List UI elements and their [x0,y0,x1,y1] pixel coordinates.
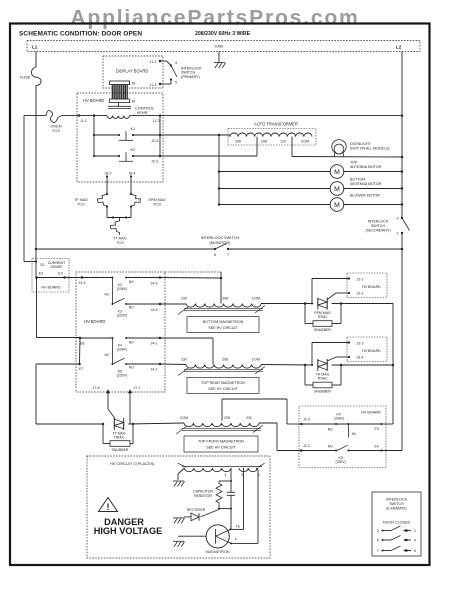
svg-text:TCO: TCO [77,203,85,207]
svg-text:J1-1: J1-1 [80,119,87,123]
svg-text:HV BOARD: HV BOARD [41,286,61,290]
wire K1 to J2-4 [133,134,160,136]
interlock switch secondary S2 [401,217,403,219]
snubber R2 network [304,365,306,385]
svg-text:HV BOARD: HV BOARD [362,285,381,289]
svg-text:J1-3: J1-3 [150,83,157,87]
svg-text:J3-4: J3-4 [357,356,364,360]
filament winding [239,468,258,472]
svg-text:208/230V 60Hz 3 WIRE: 208/230V 60Hz 3 WIRE [195,31,251,37]
top antenna motor M1 [330,165,344,179]
svg-text:E8: E8 [80,342,84,346]
HV board box (upper) [77,93,163,182]
triac Q3 (TT MAG) [113,418,115,430]
svg-text:HIGH VOLTAGE: HIGH VOLTAGE [94,526,163,536]
svg-text:J2-1: J2-1 [303,444,310,448]
svg-text:NO: NO [129,280,134,284]
label box BOTTOM MAGNETRON [187,317,259,333]
svg-text:J6: J6 [132,81,136,85]
svg-text:230: 230 [246,416,252,420]
svg-text:2: 2 [397,232,399,236]
svg-text:6: 6 [214,253,216,257]
svg-text:SNUBBER: SNUBBER [112,448,129,452]
svg-text:TRIAC: TRIAC [317,315,328,319]
resistor R (HV) [216,481,222,508]
svg-text:BOTTOM: BOTTOM [350,178,365,182]
wire J7-6 drop [107,392,109,409]
wire monitor row right [228,248,402,250]
svg-text:6: 6 [414,549,416,553]
wire L2 rail mid [401,116,403,218]
wire filament pin6 drop [256,468,258,470]
wire J2-2 to triac1 anode [312,278,349,280]
wire J1-3 to interlock [160,83,171,85]
wire L2 rail lower [401,249,403,451]
ground G2 [173,517,184,519]
svg-text:L2: L2 [396,45,402,50]
svg-text:BOTTOM MAGNETRON: BOTTOM MAGNETRON [203,320,244,324]
svg-text:J7-7: J7-7 [134,386,141,390]
svg-text:(MONITOR): (MONITOR) [210,240,232,245]
wire E2-E3-J4-4 row [37,277,86,279]
svg-text:COM: COM [301,140,309,144]
svg-text:SENSE: SENSE [50,265,63,269]
svg-text:INTERLOCK: INTERLOCK [386,498,408,502]
svg-text:MAGNETRON: MAGNETRON [206,550,230,554]
SPIN MAG TCO thermal cutout [130,195,141,207]
svg-text:AppliancePartsPros.com: AppliancePartsPros.com [70,7,359,30]
svg-text:DISPLAY BOARD: DISPLAY BOARD [116,69,149,74]
wire magnetron cathode to ground [178,535,206,537]
svg-text:HV BOARD: HV BOARD [362,349,381,353]
wire K2 row to 208 tap [160,155,257,157]
svg-text:3: 3 [241,473,243,477]
relay contact K2 [118,155,120,157]
svg-text:208: 208 [222,358,228,362]
svg-text:J4-1: J4-1 [151,342,158,346]
svg-text:SWITCH: SWITCH [389,502,404,506]
svg-text:J1-2: J1-2 [153,119,160,123]
HV board box J2 (triac1 drive) [347,273,387,298]
wire link down to J2-3 row [286,399,288,424]
wire J8-4 drop [130,177,132,195]
TF MAG TCO thermal cutout [98,195,109,207]
wire triac3 to xfmr3 COM [128,423,184,424]
blower motor M3 [330,198,344,212]
wire bottom antenna motor M2 row [219,188,330,190]
wire node top [219,480,231,482]
svg-text:J2-3: J2-3 [303,417,310,421]
svg-text:RECTIFIER: RECTIFIER [187,508,206,512]
svg-text:(NOT ON ALL MODELS): (NOT ON ALL MODELS) [350,147,390,151]
svg-text:208: 208 [222,297,228,301]
wire E4 to L2 rail [382,450,403,452]
triac Q2 (TR MAG) [317,359,319,371]
display transformer T1 core (hatched) [112,85,128,99]
svg-text:TCO: TCO [116,241,124,245]
TT MAG TCO thermal cutout [119,218,121,222]
wire J7-7 drop [129,392,131,424]
relay K2/K3 selector (bottom magnetron) [82,277,112,279]
wire L2 rail to monitor row [401,233,403,249]
svg-text:SWITCH: SWITCH [371,224,386,228]
wire ovenlight row [292,156,402,159]
HV circuit box [87,456,270,558]
wire K2 row left [94,155,119,157]
svg-text:CAPACITOR: CAPACITOR [193,490,214,494]
oven TCO thermal cutout [46,111,64,123]
svg-text:E7: E7 [79,367,83,371]
wire control coil to J1-2 node [130,115,161,117]
svg-text:TF MAG: TF MAG [74,198,88,202]
wire blower motor M3 row [219,204,330,206]
wire COM tap drop [291,137,293,157]
svg-text:E2: E2 [39,271,43,275]
rectifier D1 [184,516,191,518]
wire 230 riser to J2-1 row [276,423,278,451]
HV board box (middle) [76,272,165,392]
wire triac2 to right bus [332,364,393,366]
wire K1 row to auto transformer [160,134,230,136]
snubber R3 network [102,424,104,444]
svg-text:J2-1: J2-1 [357,292,364,296]
svg-text:230: 230 [181,358,187,362]
svg-text:F: F [235,538,237,542]
svg-text:ANTENNA MOTOR: ANTENNA MOTOR [350,165,382,169]
ground G3 [173,540,184,542]
wire K1 row left [94,134,119,136]
pin J2-2 [348,277,350,279]
wire GND drop [218,52,220,63]
pin J3-4 [348,356,350,358]
svg-text:J8-4: J8-4 [129,172,136,176]
svg-text:J4-4: J4-4 [79,281,86,285]
display transformer T1 top plate [110,81,130,85]
wire J4-5 row to 208 riser [160,277,221,280]
svg-text:J8-2: J8-2 [105,172,112,176]
wire top antenna motor M1 row [219,171,330,173]
wire K-row feeder vertical [93,116,95,157]
svg-text:HV BOARD: HV BOARD [83,98,104,103]
wire L2 rail upper [401,52,403,116]
transformer T5 top rear magnetron [186,365,261,369]
svg-text:J2-3: J2-3 [151,160,158,164]
svg-text:SCHEMATIC CONDITION: DOOR OPEN: SCHEMATIC CONDITION: DOOR OPEN [19,31,142,38]
svg-text:120: 120 [280,140,286,144]
magnetron V1 [206,525,229,548]
wire TCO join left [106,207,108,218]
wire TCO join right [130,207,132,218]
svg-text:NC: NC [352,432,357,436]
interlock switch primary S1 [170,64,172,66]
svg-text:(208V): (208V) [117,347,127,351]
HV secondary winding [184,468,231,472]
svg-text:INTERLOCK: INTERLOCK [368,220,389,224]
display board box [103,56,163,88]
wire J4-1 row to 208 riser xfmr2 [160,337,213,339]
svg-text:COM: COM [180,416,188,420]
svg-text:HV BOARD: HV BOARD [84,319,105,324]
svg-text:J7-6: J7-6 [93,386,100,390]
wire xfmr3 230 stub [259,422,277,424]
fuse F1 [31,67,41,86]
svg-text:K2: K2 [131,148,136,152]
svg-text:M: M [334,202,340,209]
svg-text:ANTENNA MOTOR: ANTENNA MOTOR [350,182,382,186]
svg-text:TRIAC: TRIAC [114,436,125,440]
svg-text:RESISTOR: RESISTOR [194,494,212,498]
auto transformer T3 winding [229,135,231,137]
wire K2 to J2-3 [133,155,160,157]
svg-text:SNUBBER: SNUBBER [314,390,331,394]
svg-text:NO: NO [129,366,134,370]
interlock switch schematic box [372,492,421,556]
svg-text:TOP REAR MAGNETRON: TOP REAR MAGNETRON [201,381,245,385]
svg-text:E3: E3 [58,271,62,275]
transformer T4 bottom magnetron [186,304,261,308]
svg-text:SEE HV CIRCUIT: SEE HV CIRCUIT [206,446,236,450]
svg-text:SEE HV CIRCUIT: SEE HV CIRCUIT [208,387,238,391]
svg-text:(230V): (230V) [336,460,346,464]
wire J2-1 row [277,450,301,452]
svg-text:SPIN MAG: SPIN MAG [148,198,166,202]
display transformer T1 bottom plate [110,99,130,103]
wire L1 rail lower [35,86,37,250]
svg-text:SCHEMATIC: SCHEMATIC [386,507,408,511]
svg-text:DOOR CLOSED: DOOR CLOSED [383,521,411,525]
HV secondary tick left [178,463,187,467]
wire node bottom [219,508,231,510]
svg-text:OVENLIGHT: OVENLIGHT [350,142,372,146]
wire control row right [64,114,107,116]
svg-text:HV BOARD: HV BOARD [361,411,381,415]
svg-text:NC: NC [105,293,110,297]
capacitor C (HV) [230,481,232,492]
svg-text:TCO: TCO [153,203,161,207]
svg-text:5: 5 [377,538,379,542]
svg-text:SNUBBER: SNUBBER [314,328,331,332]
HV transformer secondary core [182,466,262,468]
svg-text:FUSE: FUSE [20,75,31,80]
svg-text:J6: J6 [132,99,136,103]
svg-text:230: 230 [181,297,187,301]
wire pin4 node [230,468,232,481]
svg-text:2: 2 [377,529,379,533]
wire J1-1 to interlock [160,60,167,62]
svg-text:7: 7 [377,549,379,553]
wire L1 rail upper [35,52,37,68]
wire left rail lower segment [35,364,37,424]
control transformer T2 coil [107,116,129,119]
svg-text:208: 208 [235,140,241,144]
svg-text:!: ! [107,502,110,512]
svg-text:3: 3 [397,217,399,221]
interlock switch monitor S3 [214,248,216,250]
svg-text:4: 4 [225,473,227,477]
oven light LP1 [332,140,346,154]
warning triangle [99,498,118,512]
wire J3-3 to triac2 anode [312,342,349,344]
HV secondary tick right [258,463,265,467]
triac Q1 (RFM MAG) [317,298,319,310]
current sense box [32,259,69,293]
svg-text:HV CIRCUIT (3 PLACES): HV CIRCUIT (3 PLACES) [110,461,155,466]
pin J2-1 [348,292,350,294]
svg-text:TCO: TCO [52,128,60,133]
svg-text:FIL: FIL [236,525,241,529]
svg-text:M: M [334,169,340,176]
label box TOP FRONT MAGNETRON [184,436,258,452]
wire J2-3 row [287,423,301,425]
relay K4 row [301,423,348,425]
svg-text:TRIAC: TRIAC [317,377,328,381]
ground G1 [173,480,184,482]
svg-text:TT MAG: TT MAG [113,237,127,241]
svg-text:TOP: TOP [350,161,358,165]
svg-text:COM: COM [252,358,260,362]
svg-text:4: 4 [414,538,416,542]
relay K5 row [301,450,336,452]
svg-text:(PRIMARY): (PRIMARY) [181,75,200,79]
wire node to FIL pin [230,509,232,530]
svg-text:5: 5 [175,81,177,85]
svg-text:J2-2: J2-2 [357,278,364,282]
snubber R1 network [304,304,306,324]
HV board box top edge extension [165,271,221,273]
svg-text:(208V): (208V) [117,287,127,291]
wire filament pin3 drop [231,528,244,530]
svg-text:COM: COM [252,297,260,301]
wire xfmr3 top link [222,398,287,400]
HV board box J3 (triac2 drive) [347,337,387,362]
svg-text:208: 208 [224,416,230,420]
svg-text:(230V): (230V) [117,314,127,318]
wire J4-2 row to xfmr2 230 [160,363,186,366]
wire xfmr3 208 riser [221,399,223,421]
wire E2 drop to E8 [37,337,81,339]
wire J8-2 drop [106,177,108,195]
svg-text:J4-5: J4-5 [151,282,158,286]
relay contact K1 [118,134,120,136]
svg-text:J3-3: J3-3 [357,342,364,346]
svg-text:NO: NO [328,445,333,449]
bottom antenna motor M2 [330,182,344,196]
wire E7 to left rail [36,363,80,365]
svg-text:L1: L1 [32,45,38,50]
control transformer T2 core [108,105,131,107]
svg-text:AUTO TRANSFORMER: AUTO TRANSFORMER [254,122,298,127]
relay K4/K5 selector (top rear magnetron) [80,337,112,339]
svg-text:NO: NO [328,427,333,431]
wire T1 to control xfmr [118,103,120,107]
pin J3-3 [348,341,350,343]
svg-text:NO: NO [129,341,134,345]
svg-text:(208V): (208V) [334,417,344,421]
wire left rail to triac3 [36,423,103,425]
svg-text:7: 7 [227,253,229,257]
svg-text:GND: GND [215,44,224,49]
HV board box (bottom right) [299,406,386,468]
wire rail into current sense [35,249,37,278]
wire xfmr2 COM to triac2 [261,364,313,367]
svg-text:M: M [334,186,340,193]
svg-text:BLOWER MOTOR: BLOWER MOTOR [350,194,380,198]
svg-text:(SECONDARY): (SECONDARY) [365,229,390,233]
svg-text:(230V): (230V) [117,374,127,378]
wire right bus x393 [392,304,394,425]
wire E3 to right bus [382,423,394,425]
svg-text:NC: NC [105,353,110,357]
svg-text:XFMR: XFMR [137,110,148,115]
wire J3-4 to triac2 gate [336,356,349,358]
svg-text:NO: NO [129,306,134,310]
svg-text:SEE HV CIRCUIT: SEE HV CIRCUIT [208,326,238,330]
svg-text:TOP FRONT MAGNETRON: TOP FRONT MAGNETRON [198,440,244,444]
ground symbol at GND [214,62,225,64]
svg-text:208: 208 [261,140,267,144]
wire E1 branch corner [23,115,25,261]
svg-text:J4-2: J4-2 [151,368,158,372]
wire 208 riser xfmr2 [212,338,214,365]
svg-text:1: 1 [414,529,416,533]
wire 208 tap drop [256,137,258,156]
svg-text:J4-6: J4-6 [151,308,158,312]
auto transformer box [228,129,316,146]
wire triac1 to right bus [332,303,393,305]
wire xfmr1 COM to triac1 [261,303,313,305]
wire 208 riser xfmr1 [220,272,222,304]
wire monitor row left [36,248,215,250]
svg-text:E3: E3 [375,427,379,431]
wire E2 drop [36,278,38,338]
wire E8-E7 vertical [79,338,82,364]
wire rectifier to node (diagonal) [201,509,220,517]
wire J2-1 to triac1 gate [336,292,349,294]
svg-text:K1: K1 [131,127,136,131]
svg-text:E1: E1 [41,263,45,267]
transformer T6 top front magnetron [184,423,259,427]
label box TOP REAR MAGNETRON [187,378,259,394]
svg-text:E4: E4 [375,445,379,449]
vertical bus K-row right [159,116,161,156]
wire J4-6 row to xfmr1 230 [160,303,186,305]
svg-text:J2-4: J2-4 [151,139,158,143]
wire control row left [24,114,46,116]
wire row J1-2 to L2 drop [160,115,402,117]
wire motor feeder vertical [218,135,220,205]
svg-text:4: 4 [175,61,177,65]
top supply bus box [27,41,420,52]
wire secondary left to ground [178,468,184,474]
svg-text:J1-1: J1-1 [150,60,157,64]
